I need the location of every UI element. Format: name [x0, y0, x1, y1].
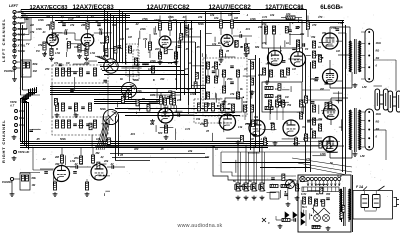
- svg-text:22k: 22k: [299, 32, 305, 36]
- svg-text:4Ω: 4Ω: [375, 56, 381, 60]
- svg-text:4.7k: 4.7k: [261, 15, 268, 19]
- svg-text:470: 470: [311, 23, 317, 27]
- svg-text:16Ω: 16Ω: [376, 112, 382, 116]
- svg-text:100k: 100k: [318, 139, 324, 143]
- svg-text:12AX7/ECC83: 12AX7/ECC83: [30, 5, 69, 11]
- svg-text:220k: 220k: [149, 59, 156, 63]
- svg-text:47k: 47k: [53, 62, 59, 65]
- svg-text:68k: 68k: [255, 45, 260, 49]
- svg-text:13k: 13k: [284, 121, 289, 125]
- svg-text:.02: .02: [60, 15, 64, 19]
- svg-text:22k: 22k: [199, 122, 205, 126]
- svg-text:250: 250: [244, 122, 250, 126]
- svg-text:.01: .01: [42, 30, 46, 34]
- svg-text:500k: 500k: [100, 41, 106, 45]
- svg-text:.001: .001: [245, 27, 251, 31]
- svg-text:.05: .05: [196, 45, 200, 49]
- svg-text:470: 470: [257, 74, 263, 77]
- svg-text:.02: .02: [135, 22, 139, 26]
- svg-text:15k: 15k: [254, 116, 259, 119]
- svg-text:6L6GB: 6L6GB: [320, 4, 340, 11]
- svg-text:20k: 20k: [269, 121, 275, 125]
- svg-text:47k: 47k: [37, 43, 43, 47]
- svg-text:2M: 2M: [45, 23, 51, 27]
- svg-text:22k: 22k: [197, 15, 203, 19]
- svg-text:1M: 1M: [33, 69, 38, 73]
- svg-text:500k: 500k: [198, 22, 204, 26]
- svg-text:45: 45: [205, 129, 209, 133]
- svg-text:LCH: LCH: [19, 124, 24, 127]
- svg-text:CAP: CAP: [68, 17, 74, 21]
- svg-text:10k: 10k: [270, 13, 275, 17]
- svg-text:.05: .05: [211, 66, 215, 69]
- svg-text:220k: 220k: [309, 77, 316, 81]
- svg-text:A.T: A.T: [9, 104, 15, 108]
- svg-text:1.5k: 1.5k: [70, 159, 76, 163]
- svg-text:470: 470: [317, 15, 323, 19]
- svg-text:TV: TV: [26, 42, 30, 46]
- svg-text:100k: 100k: [154, 18, 160, 22]
- svg-text:22k: 22k: [167, 89, 173, 93]
- svg-text:P: P: [280, 49, 282, 53]
- svg-text:400: 400: [133, 147, 139, 151]
- svg-text:100k: 100k: [190, 92, 196, 96]
- svg-text:.02: .02: [250, 92, 254, 96]
- svg-text:.02: .02: [95, 19, 99, 23]
- svg-text:.02: .02: [90, 15, 94, 19]
- svg-text:4.7k: 4.7k: [184, 127, 191, 131]
- svg-text:500k: 500k: [100, 107, 106, 111]
- svg-text:10k: 10k: [210, 13, 215, 17]
- svg-text:250k: 250k: [83, 62, 90, 65]
- svg-text:PHONO: PHONO: [4, 69, 15, 73]
- svg-text:.02: .02: [136, 63, 140, 67]
- svg-text:39k: 39k: [318, 117, 323, 121]
- svg-text:5V: 5V: [316, 193, 319, 196]
- svg-text:45: 45: [153, 32, 157, 36]
- svg-text:VR: VR: [244, 68, 248, 71]
- svg-text:5U4: 5U4: [302, 206, 307, 209]
- svg-text:C: C: [268, 222, 270, 225]
- svg-text:13k: 13k: [238, 125, 243, 129]
- svg-text:.02: .02: [110, 163, 114, 166]
- svg-text:220k: 220k: [139, 27, 146, 31]
- svg-text:470: 470: [261, 41, 267, 45]
- svg-text:22k: 22k: [187, 149, 193, 153]
- svg-text:SW: SW: [112, 23, 117, 27]
- svg-text:x4: x4: [339, 6, 343, 10]
- svg-text:www.audiodna.sk: www.audiodna.sk: [177, 223, 223, 229]
- svg-text:10k: 10k: [243, 101, 248, 104]
- svg-text:20k: 20k: [103, 159, 109, 163]
- svg-text:22k: 22k: [176, 98, 182, 102]
- svg-text:TAPE: TAPE: [18, 49, 26, 53]
- svg-text:270: 270: [305, 157, 311, 161]
- svg-text:100k: 100k: [136, 89, 142, 93]
- svg-text:24k: 24k: [257, 25, 263, 29]
- svg-text:10k: 10k: [214, 16, 219, 20]
- svg-text:LEFT CHANNEL: LEFT CHANNEL: [1, 18, 6, 62]
- svg-text:10k: 10k: [96, 137, 101, 141]
- svg-text:1.5k: 1.5k: [55, 51, 61, 55]
- svg-text:RIGHT CHANNEL: RIGHT CHANNEL: [1, 119, 6, 163]
- svg-text:A-B: A-B: [336, 174, 342, 178]
- svg-text:P: P: [66, 37, 68, 41]
- svg-text:PHONO: PHONO: [2, 180, 12, 184]
- svg-text:390: 390: [55, 162, 60, 166]
- svg-text:.02: .02: [100, 156, 104, 159]
- svg-text:45: 45: [119, 153, 123, 157]
- svg-text:B: B: [92, 33, 94, 37]
- svg-text:470k: 470k: [141, 17, 148, 21]
- svg-text:TAPE: TAPE: [10, 100, 17, 104]
- svg-text:47k: 47k: [47, 33, 53, 37]
- svg-text:13k: 13k: [268, 96, 273, 99]
- svg-text:6.3V: 6.3V: [301, 193, 306, 196]
- svg-text:.05: .05: [36, 137, 40, 141]
- svg-text:PU: PU: [36, 49, 40, 53]
- svg-text:.01: .01: [182, 15, 186, 19]
- svg-text:100k: 100k: [168, 15, 174, 19]
- svg-text:RCH: RCH: [19, 117, 24, 120]
- svg-text:7.6k: 7.6k: [338, 21, 344, 25]
- svg-text:250k: 250k: [226, 78, 233, 81]
- svg-text:4Ω: 4Ω: [375, 127, 381, 131]
- svg-text:250: 250: [44, 67, 50, 71]
- svg-text:7.6k: 7.6k: [331, 26, 337, 30]
- svg-text:2M: 2M: [95, 151, 101, 155]
- svg-text:F 1A: F 1A: [356, 185, 364, 189]
- svg-text:100k: 100k: [36, 27, 42, 31]
- svg-text:100k: 100k: [38, 18, 44, 22]
- svg-text:47k: 47k: [29, 30, 35, 34]
- svg-text:68k: 68k: [150, 122, 155, 126]
- svg-text:45: 45: [159, 45, 163, 49]
- svg-text:2M: 2M: [54, 155, 60, 159]
- svg-text:.02: .02: [60, 19, 64, 23]
- svg-text:250k: 250k: [102, 18, 109, 22]
- svg-text:47k: 47k: [295, 25, 301, 29]
- svg-text:120k: 120k: [320, 152, 326, 156]
- svg-text:.02: .02: [74, 163, 78, 166]
- svg-text:47k: 47k: [167, 61, 173, 65]
- svg-text:SEL: SEL: [24, 17, 29, 21]
- svg-text:75k: 75k: [287, 104, 292, 107]
- svg-text:0.5: 0.5: [218, 121, 222, 125]
- svg-text:68k: 68k: [33, 62, 38, 66]
- svg-text:10k: 10k: [212, 42, 217, 46]
- svg-text:TAPE HD: TAPE HD: [18, 150, 29, 154]
- svg-text:68k: 68k: [32, 176, 37, 180]
- svg-text:47: 47: [79, 162, 83, 166]
- svg-text:47k: 47k: [142, 37, 148, 41]
- svg-text:P2: P2: [305, 47, 309, 51]
- svg-text:10k: 10k: [205, 155, 210, 159]
- svg-text:B+: B+: [218, 41, 222, 45]
- svg-text:.05: .05: [227, 108, 231, 111]
- svg-text:350: 350: [326, 193, 331, 196]
- svg-text:4.7k: 4.7k: [149, 93, 156, 97]
- svg-text:390: 390: [160, 77, 165, 81]
- svg-text:500k: 500k: [60, 137, 66, 141]
- svg-text:10k: 10k: [286, 12, 291, 16]
- svg-text:.05: .05: [186, 87, 190, 91]
- svg-text:X TAL: X TAL: [17, 44, 26, 48]
- svg-text:16Ω: 16Ω: [376, 41, 382, 45]
- svg-text:.02: .02: [98, 27, 102, 31]
- svg-text:76k: 76k: [311, 35, 316, 39]
- svg-text:76k: 76k: [322, 31, 327, 35]
- svg-text:.05: .05: [160, 147, 164, 151]
- svg-text:45: 45: [225, 49, 229, 53]
- svg-text:270k: 270k: [315, 53, 322, 57]
- svg-text:47: 47: [184, 67, 188, 71]
- svg-text:LCH: LCH: [19, 110, 24, 113]
- svg-text:B: B: [57, 33, 59, 37]
- svg-text:100k: 100k: [250, 17, 256, 21]
- svg-text:500: 500: [158, 131, 163, 135]
- svg-text:1.5k: 1.5k: [90, 51, 96, 55]
- svg-text:47k: 47k: [69, 23, 75, 27]
- svg-text:LEFT: LEFT: [9, 4, 19, 8]
- svg-text:.02: .02: [64, 28, 68, 32]
- svg-text:15k: 15k: [196, 118, 201, 121]
- svg-text:47k: 47k: [229, 92, 235, 96]
- svg-text:.02: .02: [42, 157, 46, 161]
- svg-text:.05: .05: [227, 103, 231, 106]
- svg-text:.001: .001: [130, 132, 136, 136]
- svg-text:120k: 120k: [148, 67, 154, 71]
- svg-text:.05: .05: [185, 47, 189, 51]
